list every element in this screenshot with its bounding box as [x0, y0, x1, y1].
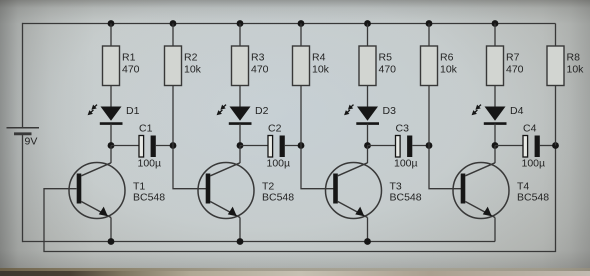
junction top rail / R1 — [108, 20, 115, 27]
svg-text:D3: D3 — [383, 105, 397, 117]
wire emitter/ground bottom rail — [23, 241, 496, 243]
svg-text:R7: R7 — [506, 51, 520, 63]
svg-text:BC548: BC548 — [133, 191, 165, 203]
svg-text:R2: R2 — [184, 51, 198, 63]
resistor R3 470 — [232, 24, 269, 86]
svg-text:BC548: BC548 — [390, 191, 422, 203]
junction emitter T3 / ground rail — [364, 238, 371, 245]
junction collector T1 / D1 / C1 — [108, 142, 115, 149]
wire R2/C1 node to T2 base — [173, 86, 207, 189]
svg-text:C1: C1 — [139, 123, 153, 135]
svg-text:D2: D2 — [255, 105, 269, 117]
svg-text:R1: R1 — [122, 51, 136, 63]
junction top rail / R2 — [170, 20, 177, 27]
LED D4 — [472, 86, 524, 146]
capacitor C1 100µ — [111, 123, 173, 170]
svg-text:470: 470 — [506, 63, 524, 75]
svg-text:10k: 10k — [312, 63, 330, 75]
resistor R6 10k — [421, 24, 458, 86]
svg-text:10k: 10k — [184, 63, 202, 75]
LED D1 — [88, 86, 140, 146]
junction top rail / R3 — [237, 20, 244, 27]
junction top rail / R6 — [426, 20, 433, 27]
junction emitter T1 / ground rail — [108, 238, 115, 245]
wire +9V top rail — [23, 23, 556, 25]
junction top rail / R4 — [298, 20, 305, 27]
junction R2 / C1 output node — [170, 142, 177, 149]
resistor R5 470 — [359, 24, 396, 86]
svg-text:10k: 10k — [567, 63, 585, 75]
junction collector T4 / D4 / C4 — [492, 142, 499, 149]
resistor R1 470 — [103, 24, 140, 86]
svg-text:D1: D1 — [126, 105, 140, 117]
junction collector T3 / D3 / C3 — [364, 142, 371, 149]
junction top rail / R7 — [492, 20, 499, 27]
svg-text:D4: D4 — [510, 105, 524, 117]
wire R8/C4 node down to feedback — [555, 86, 557, 146]
battery BT1 9V — [7, 128, 40, 148]
svg-text:100µ: 100µ — [522, 158, 546, 170]
transistor T1 BC548 — [69, 146, 165, 242]
wire left frame, +9V rail down to battery + — [22, 23, 24, 128]
junction emitter T2 / ground rail — [237, 238, 244, 245]
svg-text:470: 470 — [251, 63, 269, 75]
svg-text:470: 470 — [122, 63, 140, 75]
resistor R2 10k — [165, 24, 202, 86]
wire R6/C3 node to T4 base — [429, 86, 462, 189]
svg-text:BC548: BC548 — [517, 191, 549, 203]
svg-text:R4: R4 — [312, 51, 326, 63]
svg-text:R5: R5 — [379, 51, 393, 63]
svg-text:100µ: 100µ — [267, 158, 291, 170]
junction R8 / C4 output node — [552, 142, 559, 149]
junction collector T2 / D2 / C2 — [237, 142, 244, 149]
junction top rail / R5 — [364, 20, 371, 27]
wire R4/C2 node to T3 base — [301, 86, 334, 189]
svg-text:R8: R8 — [567, 51, 581, 63]
svg-text:100µ: 100µ — [138, 158, 162, 170]
LED D2 — [217, 86, 269, 146]
svg-text:C3: C3 — [396, 123, 410, 135]
capacitor C2 100µ — [240, 123, 301, 170]
capacitor C4 100µ — [495, 123, 556, 170]
svg-text:BC548: BC548 — [262, 191, 294, 203]
wire feedback from C4 output back to T1 base — [44, 146, 556, 252]
svg-text:9V: 9V — [25, 135, 38, 147]
transistor T4 BC548 — [453, 146, 549, 242]
junction R6 / C3 output node — [426, 142, 433, 149]
resistor R8 10k — [547, 24, 584, 86]
svg-text:10k: 10k — [440, 63, 458, 75]
svg-text:C4: C4 — [523, 123, 537, 135]
capacitor C3 100µ — [368, 123, 430, 170]
svg-text:R6: R6 — [440, 51, 454, 63]
svg-text:470: 470 — [379, 63, 397, 75]
transistor T3 BC548 — [326, 146, 422, 242]
resistor R7 470 — [487, 24, 524, 86]
resistor R4 10k — [293, 24, 330, 86]
LED D3 — [344, 86, 396, 146]
svg-text:R3: R3 — [251, 51, 265, 63]
transistor T2 BC548 — [198, 146, 294, 242]
wire battery - down to emitter rail — [22, 134, 24, 242]
junction R4 / C2 output node — [298, 142, 305, 149]
svg-text:100µ: 100µ — [394, 158, 418, 170]
svg-text:C2: C2 — [268, 123, 282, 135]
